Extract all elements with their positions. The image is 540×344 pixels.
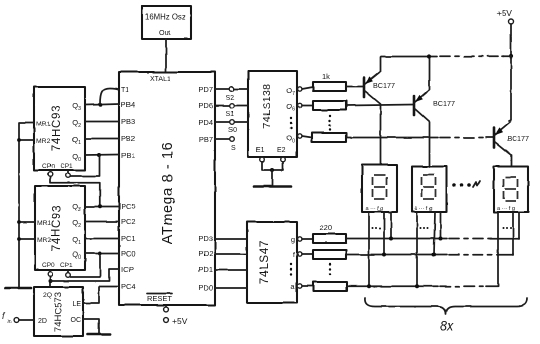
- wire S0 to 138: [235, 121, 249, 123]
- wire T1 arc: [100, 88, 119, 104]
- segments DS8: [504, 177, 518, 201]
- node f DS2: [432, 253, 436, 257]
- pin O6: [286, 102, 302, 113]
- wire CP0 U3 to 2Q: [49, 277, 51, 288]
- brace 8x: [365, 298, 527, 333]
- svg-text:1k: 1k: [322, 72, 330, 81]
- svg-text:PC1: PC1: [121, 234, 136, 243]
- svg-text:Q0: Q0: [72, 250, 81, 261]
- wire g bus end: [490, 237, 519, 240]
- counter U3 74HC93 lower: [35, 186, 85, 270]
- wire oscillator to XTAL1: [165, 39, 167, 72]
- svg-text:74LS138: 74LS138: [261, 84, 273, 129]
- ellipsis between displays: [452, 181, 480, 187]
- oscillator box 16MHz: [142, 6, 191, 39]
- node Q3/T1 junction: [98, 103, 102, 107]
- op IC U1 ATmega8-16: [119, 72, 215, 305]
- wire OC to ground: [83, 319, 99, 333]
- svg-text:74HC93: 74HC93: [51, 105, 63, 151]
- wire R1 to Q1 base: [346, 86, 364, 88]
- pin a DS8: [497, 212, 499, 286]
- resistor R4 220: [302, 223, 346, 243]
- pin a U6: [291, 282, 302, 291]
- pin E2: [277, 147, 286, 162]
- wire Q3-PB4: [85, 104, 119, 105]
- svg-text:ATmega 8 - 16: ATmega 8 - 16: [160, 142, 176, 245]
- svg-text:Q2: Q2: [72, 218, 81, 229]
- wire a bus dashed: [440, 285, 488, 287]
- svg-text:MR1: MR1: [37, 220, 52, 227]
- svg-text:XTAL1: XTAL1: [150, 76, 171, 83]
- wire Q1-PB2: [85, 138, 119, 140]
- resistor R6 220: [302, 282, 347, 291]
- wire Q2-PC2: [85, 221, 119, 223]
- wire PD7-S2: [215, 88, 230, 90]
- wire a bus: [347, 285, 438, 287]
- svg-text:BC177: BC177: [433, 99, 455, 108]
- wire PD4-S0: [215, 121, 230, 123]
- svg-text:OC: OC: [71, 317, 82, 324]
- pin CP0 U2: [42, 163, 55, 176]
- pin g DS8: [518, 212, 520, 239]
- pin g U6: [291, 235, 302, 244]
- svg-text:PC0: PC0: [121, 249, 136, 258]
- wire Q1-PC1: [85, 238, 119, 240]
- svg-text:74HC93: 74HC93: [51, 205, 63, 251]
- node S2 terminal: [230, 87, 235, 92]
- svg-text:PB2: PB2: [121, 134, 135, 143]
- wire emitter rail: [381, 56, 437, 58]
- svg-text:a ··· f g: a ··· f g: [415, 206, 433, 212]
- latch U4 74HC573 input: [34, 287, 83, 336]
- pin RESET: [147, 294, 172, 304]
- wire +5V to Q3 emitter: [509, 56, 511, 121]
- svg-text:PD3: PD3: [198, 234, 213, 243]
- wire Q0 to CP1 U2: [70, 155, 99, 176]
- svg-text:PD7: PD7: [198, 85, 213, 94]
- svg-text:Q3: Q3: [72, 101, 81, 112]
- svg-text:S2: S2: [226, 95, 235, 102]
- wire g bus: [346, 238, 447, 240]
- svg-text:PB7: PB7: [199, 135, 213, 144]
- svg-text:in: in: [7, 319, 11, 325]
- svg-text:CP0: CP0: [42, 163, 55, 170]
- node Q0b junction: [98, 252, 102, 256]
- wire S1 to 138: [235, 105, 249, 107]
- wire fin to 2D: [19, 319, 34, 321]
- ground MR rail: [5, 287, 31, 290]
- node fin terminal: [2, 311, 19, 325]
- svg-text:PB4: PB4: [121, 100, 135, 109]
- svg-text:CP1: CP1: [60, 163, 73, 170]
- svg-text:CP1: CP1: [60, 262, 73, 269]
- ellipsis 138 outputs: [290, 117, 292, 129]
- wire MR rail: [19, 123, 34, 288]
- pin O7: [286, 86, 302, 97]
- node MR1b: [17, 220, 21, 224]
- svg-text:T1: T1: [121, 87, 129, 94]
- node S1 terminal: [230, 103, 235, 108]
- svg-text:RESET: RESET: [147, 294, 172, 303]
- svg-text:O7: O7: [286, 86, 295, 97]
- wire f bus end: [497, 253, 513, 256]
- pin f DS2: [434, 212, 435, 255]
- svg-text:MR1: MR1: [36, 121, 51, 128]
- wire E1 E2 join: [262, 162, 283, 170]
- node Q3b junction: [98, 204, 102, 208]
- svg-text:S1: S1: [226, 111, 235, 118]
- wire a bus end: [486, 285, 498, 286]
- node a DS1: [367, 284, 371, 288]
- transistor Q2 BC177: [414, 58, 455, 167]
- wire MR2 U2: [19, 139, 34, 141]
- ellipsis U6 outputs: [290, 263, 292, 275]
- pin CP1 U2: [60, 163, 73, 178]
- svg-text:Out: Out: [159, 28, 171, 37]
- svg-text:E1: E1: [256, 147, 265, 154]
- svg-text:E2: E2: [277, 147, 286, 154]
- svg-text:PB3: PB3: [121, 117, 135, 126]
- svg-text:LE: LE: [72, 301, 81, 308]
- resistor R2 1k: [302, 101, 346, 110]
- reset terminal: [164, 305, 169, 312]
- wire ICP link: [51, 269, 120, 281]
- wire PD6-S1: [215, 105, 230, 107]
- svg-text:PB1: PB1: [121, 151, 135, 160]
- +5V reset supply terminal: [164, 316, 188, 326]
- pin a DS1: [368, 212, 370, 286]
- wire Q3-PC5: [85, 206, 119, 208]
- wire PD3 to 47: [215, 238, 247, 240]
- node f DS1: [382, 253, 386, 257]
- svg-text:CP0: CP0: [42, 262, 55, 269]
- svg-text:Q1: Q1: [72, 235, 81, 246]
- svg-text:16MHz Osz: 16MHz Osz: [145, 13, 186, 22]
- wire Q0-PB1: [85, 154, 119, 157]
- svg-text:MR2: MR2: [36, 138, 51, 145]
- decoder U6 74LS47: [247, 222, 297, 303]
- wire R2 to Q2 base: [346, 105, 414, 106]
- svg-text:PC4: PC4: [121, 282, 136, 291]
- wire rail dashed: [440, 55, 504, 57]
- resistor R1 1k: [302, 72, 346, 91]
- svg-text:BC177: BC177: [507, 134, 529, 143]
- svg-text:8x: 8x: [440, 319, 454, 333]
- svg-text:O6: O6: [286, 102, 295, 113]
- node g DS2: [439, 237, 443, 241]
- pin a DS2: [416, 212, 418, 286]
- pin g DS1: [390, 212, 392, 239]
- svg-text:74HC573: 74HC573: [53, 292, 64, 332]
- transistor Q1 BC177: [364, 57, 395, 164]
- wire LE to PC4: [83, 287, 119, 304]
- node Q0/CP1 junction: [97, 153, 101, 157]
- svg-text:220: 220: [320, 223, 333, 232]
- wire to Q3 base end: [486, 137, 494, 139]
- svg-text:PD6: PD6: [198, 101, 213, 110]
- counter U2 74HC93 upper: [34, 87, 85, 170]
- ellipsis 220 column: [329, 263, 331, 275]
- svg-text:PD1: PD1: [198, 265, 213, 274]
- transistor Q3 BC177: [494, 122, 529, 166]
- pin CP0 U3: [42, 262, 55, 276]
- wire R3 dashed continuation: [440, 137, 488, 139]
- node MR2b: [17, 237, 21, 241]
- ground OC: [88, 333, 110, 336]
- wire PB7-S: [215, 138, 230, 140]
- svg-text:PD2: PD2: [198, 249, 213, 258]
- resistor R3 1k: [302, 133, 346, 142]
- +5V supply terminal: [497, 8, 514, 24]
- svg-text:BC177: BC177: [373, 81, 395, 90]
- svg-text:2D: 2D: [38, 318, 47, 325]
- wire CP0 U2 to PC5 net: [50, 177, 100, 206]
- node S0 terminal: [230, 120, 235, 125]
- svg-text:+5V: +5V: [497, 8, 513, 18]
- display DS8: [494, 167, 528, 213]
- svg-text:f: f: [293, 250, 296, 259]
- node MR2a: [17, 138, 21, 142]
- resistor R5 220: [302, 250, 346, 259]
- wire Q0-PC0: [85, 253, 119, 255]
- wire rail end: [502, 55, 511, 57]
- svg-text:MR2: MR2: [37, 237, 52, 244]
- node S terminal: [230, 137, 235, 142]
- svg-text:S: S: [231, 145, 236, 152]
- svg-text:74LS47: 74LS47: [259, 240, 271, 284]
- wire Q0b to CP1 U3: [70, 254, 100, 277]
- wire MR2 U3: [19, 238, 35, 240]
- pin g DS2: [440, 212, 442, 239]
- node g DS1: [389, 237, 393, 241]
- wire g bus dashed: [449, 238, 492, 240]
- node a DS2: [415, 284, 419, 288]
- wire E to ground: [271, 170, 273, 186]
- wire f bus dashed: [449, 254, 499, 256]
- svg-text:a ··· f g: a ··· f g: [366, 206, 384, 212]
- wire PD0 to 47: [215, 287, 247, 289]
- svg-text:2Q: 2Q: [43, 292, 52, 299]
- ellipsis DS1 pins: [372, 227, 381, 229]
- svg-text:Q1: Q1: [72, 135, 81, 146]
- ellipsis resistor column: [329, 115, 331, 131]
- ellipsis DS2 pins: [420, 227, 429, 229]
- svg-text:ICP: ICP: [121, 265, 134, 274]
- pin O0: [286, 133, 302, 144]
- wire PD2 to 47: [215, 253, 247, 255]
- svg-text:PD4: PD4: [198, 118, 213, 127]
- node ICP tap: [49, 279, 53, 283]
- ellipsis DS8 pins: [503, 227, 512, 229]
- svg-text:Q3: Q3: [72, 202, 81, 213]
- display DS1: [362, 165, 397, 213]
- wire f bus: [346, 254, 447, 256]
- wire S2 to 138: [235, 88, 249, 90]
- segments DS2: [422, 175, 436, 199]
- wire MR1 U3: [19, 221, 35, 223]
- svg-text:PC5: PC5: [121, 202, 136, 211]
- display DS2: [412, 167, 447, 213]
- wire Q2-PB3: [85, 121, 119, 123]
- wire +5V down: [510, 24, 512, 56]
- svg-text:O0: O0: [286, 133, 295, 144]
- svg-text:+5V: +5V: [172, 316, 188, 326]
- svg-text:Q0: Q0: [72, 152, 81, 163]
- svg-text:a: a: [291, 282, 296, 291]
- svg-text:PC2: PC2: [121, 217, 136, 226]
- decoder U5 74LS138: [248, 71, 297, 157]
- node E junction: [270, 168, 274, 172]
- ground 138: [254, 185, 291, 188]
- svg-text:a ··· f g: a ··· f g: [497, 206, 515, 212]
- svg-text:S0: S0: [228, 127, 237, 134]
- segments DS1: [373, 175, 387, 199]
- pin f U6: [293, 250, 302, 259]
- pin f DS1: [383, 212, 385, 255]
- wire PD1 to 47: [215, 269, 247, 271]
- svg-text:f: f: [2, 311, 6, 321]
- pin CP1 U3: [60, 262, 73, 277]
- pin f DS8: [512, 212, 514, 255]
- svg-text:PD0: PD0: [198, 283, 213, 292]
- svg-text:g: g: [291, 235, 295, 244]
- node Q2 emitter junction: [427, 54, 431, 58]
- svg-text:Q2: Q2: [72, 118, 81, 129]
- wire R3 to Q3 base: [346, 137, 438, 139]
- pin E1: [256, 147, 265, 162]
- node +5V rail corner: [509, 54, 513, 58]
